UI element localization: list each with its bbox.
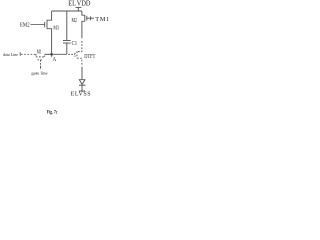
wire node A to C1 bottom: [45, 53, 67, 55]
TM1 terminal tick: [90, 16, 92, 20]
diode OLED triangle: [79, 80, 85, 85]
svg-text:EM2: EM2: [20, 22, 30, 28]
wire M3 drain (rail to M3): [47, 11, 52, 20]
wire gate line stub: [40, 66, 42, 69]
transistor M3 channel: [46, 20, 48, 29]
wire ELVDD stub: [77, 7, 79, 11]
transistor M1 drain bend dashed: [44, 54, 46, 57]
wire M2 gate lead: [87, 17, 94, 19]
svg-text:DTFT: DTFT: [84, 54, 95, 60]
wire OLED anode: [81, 67, 83, 80]
wire M2 source down: [82, 21, 85, 38]
capacitor C1 bottom lead: [66, 43, 68, 54]
transistor DTFT gate bar dashed: [74, 53, 76, 57]
transistor M3 gate bar: [44, 22, 46, 27]
diode OLED cathode bar: [79, 84, 86, 86]
wire M3 source down to node A: [47, 29, 52, 55]
transistor M1 source bend dashed: [35, 54, 37, 57]
wire OLED cathode to ELVSS: [81, 85, 83, 91]
data line terminal tick: [19, 52, 21, 56]
wire DTFT source lead dashed: [77, 58, 82, 65]
svg-text:ELVSS: ELVSS: [71, 92, 92, 98]
capacitor C1 top lead to rail: [66, 11, 68, 41]
wire M1 drain to node A dashed: [45, 53, 50, 55]
svg-text:ELVDD: ELVDD: [68, 0, 90, 7]
capacitor C1 bottom plate: [63, 42, 71, 44]
svg-text:Fig. 7c: Fig. 7c: [47, 111, 58, 116]
svg-text:A: A: [53, 57, 57, 63]
svg-text:data Line: data Line: [3, 52, 18, 57]
ELVSS terminal bar: [79, 90, 85, 92]
transistor M1 channel dashed: [36, 56, 45, 58]
wire data line to M1 dashed: [21, 53, 36, 55]
capacitor C1 top plate: [63, 40, 71, 42]
svg-text:M2: M2: [72, 18, 77, 24]
wire DTFT gate lead dashed: [68, 53, 75, 55]
node A junction dot: [50, 53, 53, 56]
transistor M2 channel: [84, 15, 86, 21]
ELVDD terminal bar: [76, 6, 82, 8]
wire M3 gate lead from EM2: [31, 24, 45, 26]
transistor DTFT channel dashed: [76, 51, 78, 58]
transistor M1 gate bar dashed: [38, 59, 44, 61]
transistor DTFT drain lead dashed: [77, 41, 82, 52]
svg-text:C1: C1: [72, 41, 78, 47]
svg-text:M3: M3: [53, 25, 59, 31]
svg-text:gate line: gate line: [31, 71, 47, 76]
svg-text:TM1: TM1: [95, 16, 110, 23]
wire M2 drain from rail: [82, 11, 85, 15]
svg-text:M1: M1: [37, 49, 42, 55]
wire top rail: [52, 10, 82, 12]
transistor M2 gate bar: [86, 16, 88, 21]
wire M1 gate lead dashed: [40, 60, 42, 65]
node A stub: [51, 54, 53, 57]
